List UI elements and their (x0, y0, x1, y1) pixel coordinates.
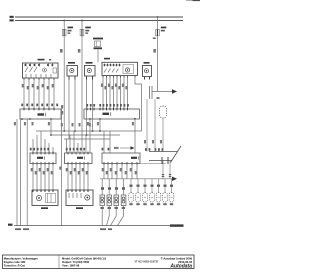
wire jog from J119 pin to bus (135, 76, 142, 132)
wire long earth run 3 (26, 119, 28, 226)
pump unit V5 label (41, 207, 48, 209)
switch unit E1 label (38, 59, 45, 61)
svg-text:Autodata: Autodata (169, 263, 192, 269)
footer text right (135, 256, 193, 264)
wire supply rail 15 (15, 20, 183, 22)
connector inline C1 bracket (150, 86, 153, 99)
motor V1 (67, 66, 78, 80)
wire fuse S5 drop (81, 21, 83, 140)
bus wire 3 (64, 138, 110, 140)
wire lamp grounds to earth bus (102, 206, 123, 226)
connector strip T10 left (20, 109, 61, 119)
wire drop from strip dot 51 (50, 119, 52, 135)
lamp labels below (101, 203, 174, 209)
wire right side drop 155 (154, 99, 156, 152)
wire bundle below switch unit E1 (24, 78, 54, 109)
node junction on rail at fuse S5 (81, 20, 83, 22)
bus wire 2 (51, 134, 120, 136)
wire drop from strip dot 135 to relay plate (134, 119, 136, 153)
earth bus (14, 225, 184, 227)
arrow head mid (131, 146, 135, 150)
wire colour labels below E1 (22, 84, 54, 89)
wire motor V2 pins to bus (87, 80, 93, 136)
svg-text:© Autodata Limited 2009: © Autodata Limited 2009 (161, 256, 193, 260)
footer text left (4, 257, 38, 268)
wire drop from strip dot 90 (89, 119, 91, 131)
pin ticks on strip T10 top lines (24, 108, 128, 111)
wire supply rail 30 (15, 16, 183, 18)
motor V1 label (68, 62, 75, 64)
lamp feed line with arrow (100, 178, 172, 180)
motor V2 (85, 66, 96, 80)
wiper motor V unit (66, 190, 93, 206)
relay J59 (143, 66, 152, 80)
node junction on rail at fuse S7 (157, 16, 159, 18)
lambda probe dashed component (160, 106, 167, 118)
bus wire 1 (36, 130, 142, 132)
lamp pin labels row (101, 185, 173, 190)
wire drop from strip dot 100 (99, 119, 101, 131)
control unit J119 (102, 62, 138, 77)
wire colour label S7 drop (153, 49, 156, 53)
control unit J119 label (104, 58, 110, 60)
wire right side drop 147 (146, 99, 148, 152)
fuse S7 (153, 27, 167, 39)
connector T2 stack above control unit (93, 38, 103, 63)
pin numbers above connector strip T (21, 104, 129, 107)
connector strip F middle (65, 153, 93, 164)
footer text middle (62, 257, 107, 268)
fuse S13 (62, 27, 73, 36)
wire drops from feed line to lamps (102, 179, 123, 195)
wire long earth run mid (61, 106, 63, 226)
bulb unit row (100, 195, 126, 206)
svg-text:Year: 1997-98: Year: 1997-98 (62, 264, 80, 268)
inline connector ticks right (162, 175, 171, 177)
connector strip T10 right (84, 109, 140, 119)
connector strip E left (30, 153, 56, 164)
label at mid arrow (114, 147, 119, 149)
earth point labels below bus (15, 228, 112, 230)
pin ticks on strips E F top and bottom (33, 152, 137, 165)
node dots on strip bottom (21, 118, 136, 120)
multi pin connector trapezoid (149, 146, 181, 163)
wiper motor label (76, 207, 83, 209)
label on mid earth run (59, 167, 61, 170)
pump unit V5 (32, 190, 58, 206)
wire bundle below control unit J119 (103, 76, 128, 110)
wire drops from E to motor pump unit (33, 164, 53, 191)
trapezoid pins (162, 157, 168, 164)
connector strip G wide (102, 153, 140, 164)
fuse S5 (80, 27, 91, 36)
motor V2 label (86, 62, 93, 64)
wire to other circuit mid arrow (120, 147, 131, 149)
wire drops from F to wiper motor unit (68, 164, 88, 191)
arrow head right lower (172, 177, 177, 181)
wire fuse S13 drop (63, 21, 65, 132)
earth bus heavy end (170, 224, 184, 226)
earth label left (8, 224, 13, 226)
relay J59 label (144, 62, 150, 64)
switch unit E1 (23, 63, 59, 80)
wire long earth run 2 (20, 119, 22, 226)
svg-text:Model: Golf/Golf Cabrio (96-00: Model: Golf/Golf Cabrio (96-00) 1.8 (62, 257, 107, 261)
wire long earth run 1 (16, 119, 18, 226)
wire fuse S7 drop (157, 17, 159, 92)
footer data table (0, 0, 200, 275)
node label 15 (10, 19, 14, 21)
wire labels between strips and units (31, 168, 88, 174)
arrow head right (172, 89, 177, 93)
wire drops to dashed lamps (131, 161, 172, 193)
wire right side drop 163 (162, 118, 164, 152)
svg-text:Tuned for: R Cat: Tuned for: R Cat (4, 264, 25, 268)
wire to other circuit with arrow (152, 91, 172, 93)
node label 30 (10, 16, 14, 18)
scan artifact top right (193, 0, 201, 1)
footer frame (3, 255, 195, 269)
dashed bulb row (129, 193, 174, 203)
wire colour label S5 drop (78, 49, 81, 53)
svg-text:Engine code: NN: Engine code: NN (4, 260, 26, 264)
wire colour label S13 drop (60, 49, 63, 53)
wire labels mid left (14, 105, 134, 126)
wire motor V1 pins to bus (69, 80, 75, 140)
node dots on buses (50, 130, 101, 136)
wire colour labels below J119 (101, 84, 128, 90)
svg-text:Output: 74 (100) 5500: Output: 74 (100) 5500 (62, 260, 90, 264)
wire labels above lamp feed line (102, 168, 137, 174)
wire bus drops to relay plate strips (33, 131, 110, 153)
svg-text:Manufacturer: Volkswagen: Manufacturer: Volkswagen (4, 257, 38, 261)
wire labels right side (144, 97, 162, 143)
wire strip G extension line (140, 163, 166, 165)
svg-text:VT 4/13 0/803-010/735: VT 4/13 0/803-010/735 (135, 260, 159, 263)
node junction on rail at fuse S13 (63, 20, 65, 22)
wire drops from G to lamp row (104, 164, 137, 179)
pin numbers above relay plate strips (30, 148, 164, 151)
